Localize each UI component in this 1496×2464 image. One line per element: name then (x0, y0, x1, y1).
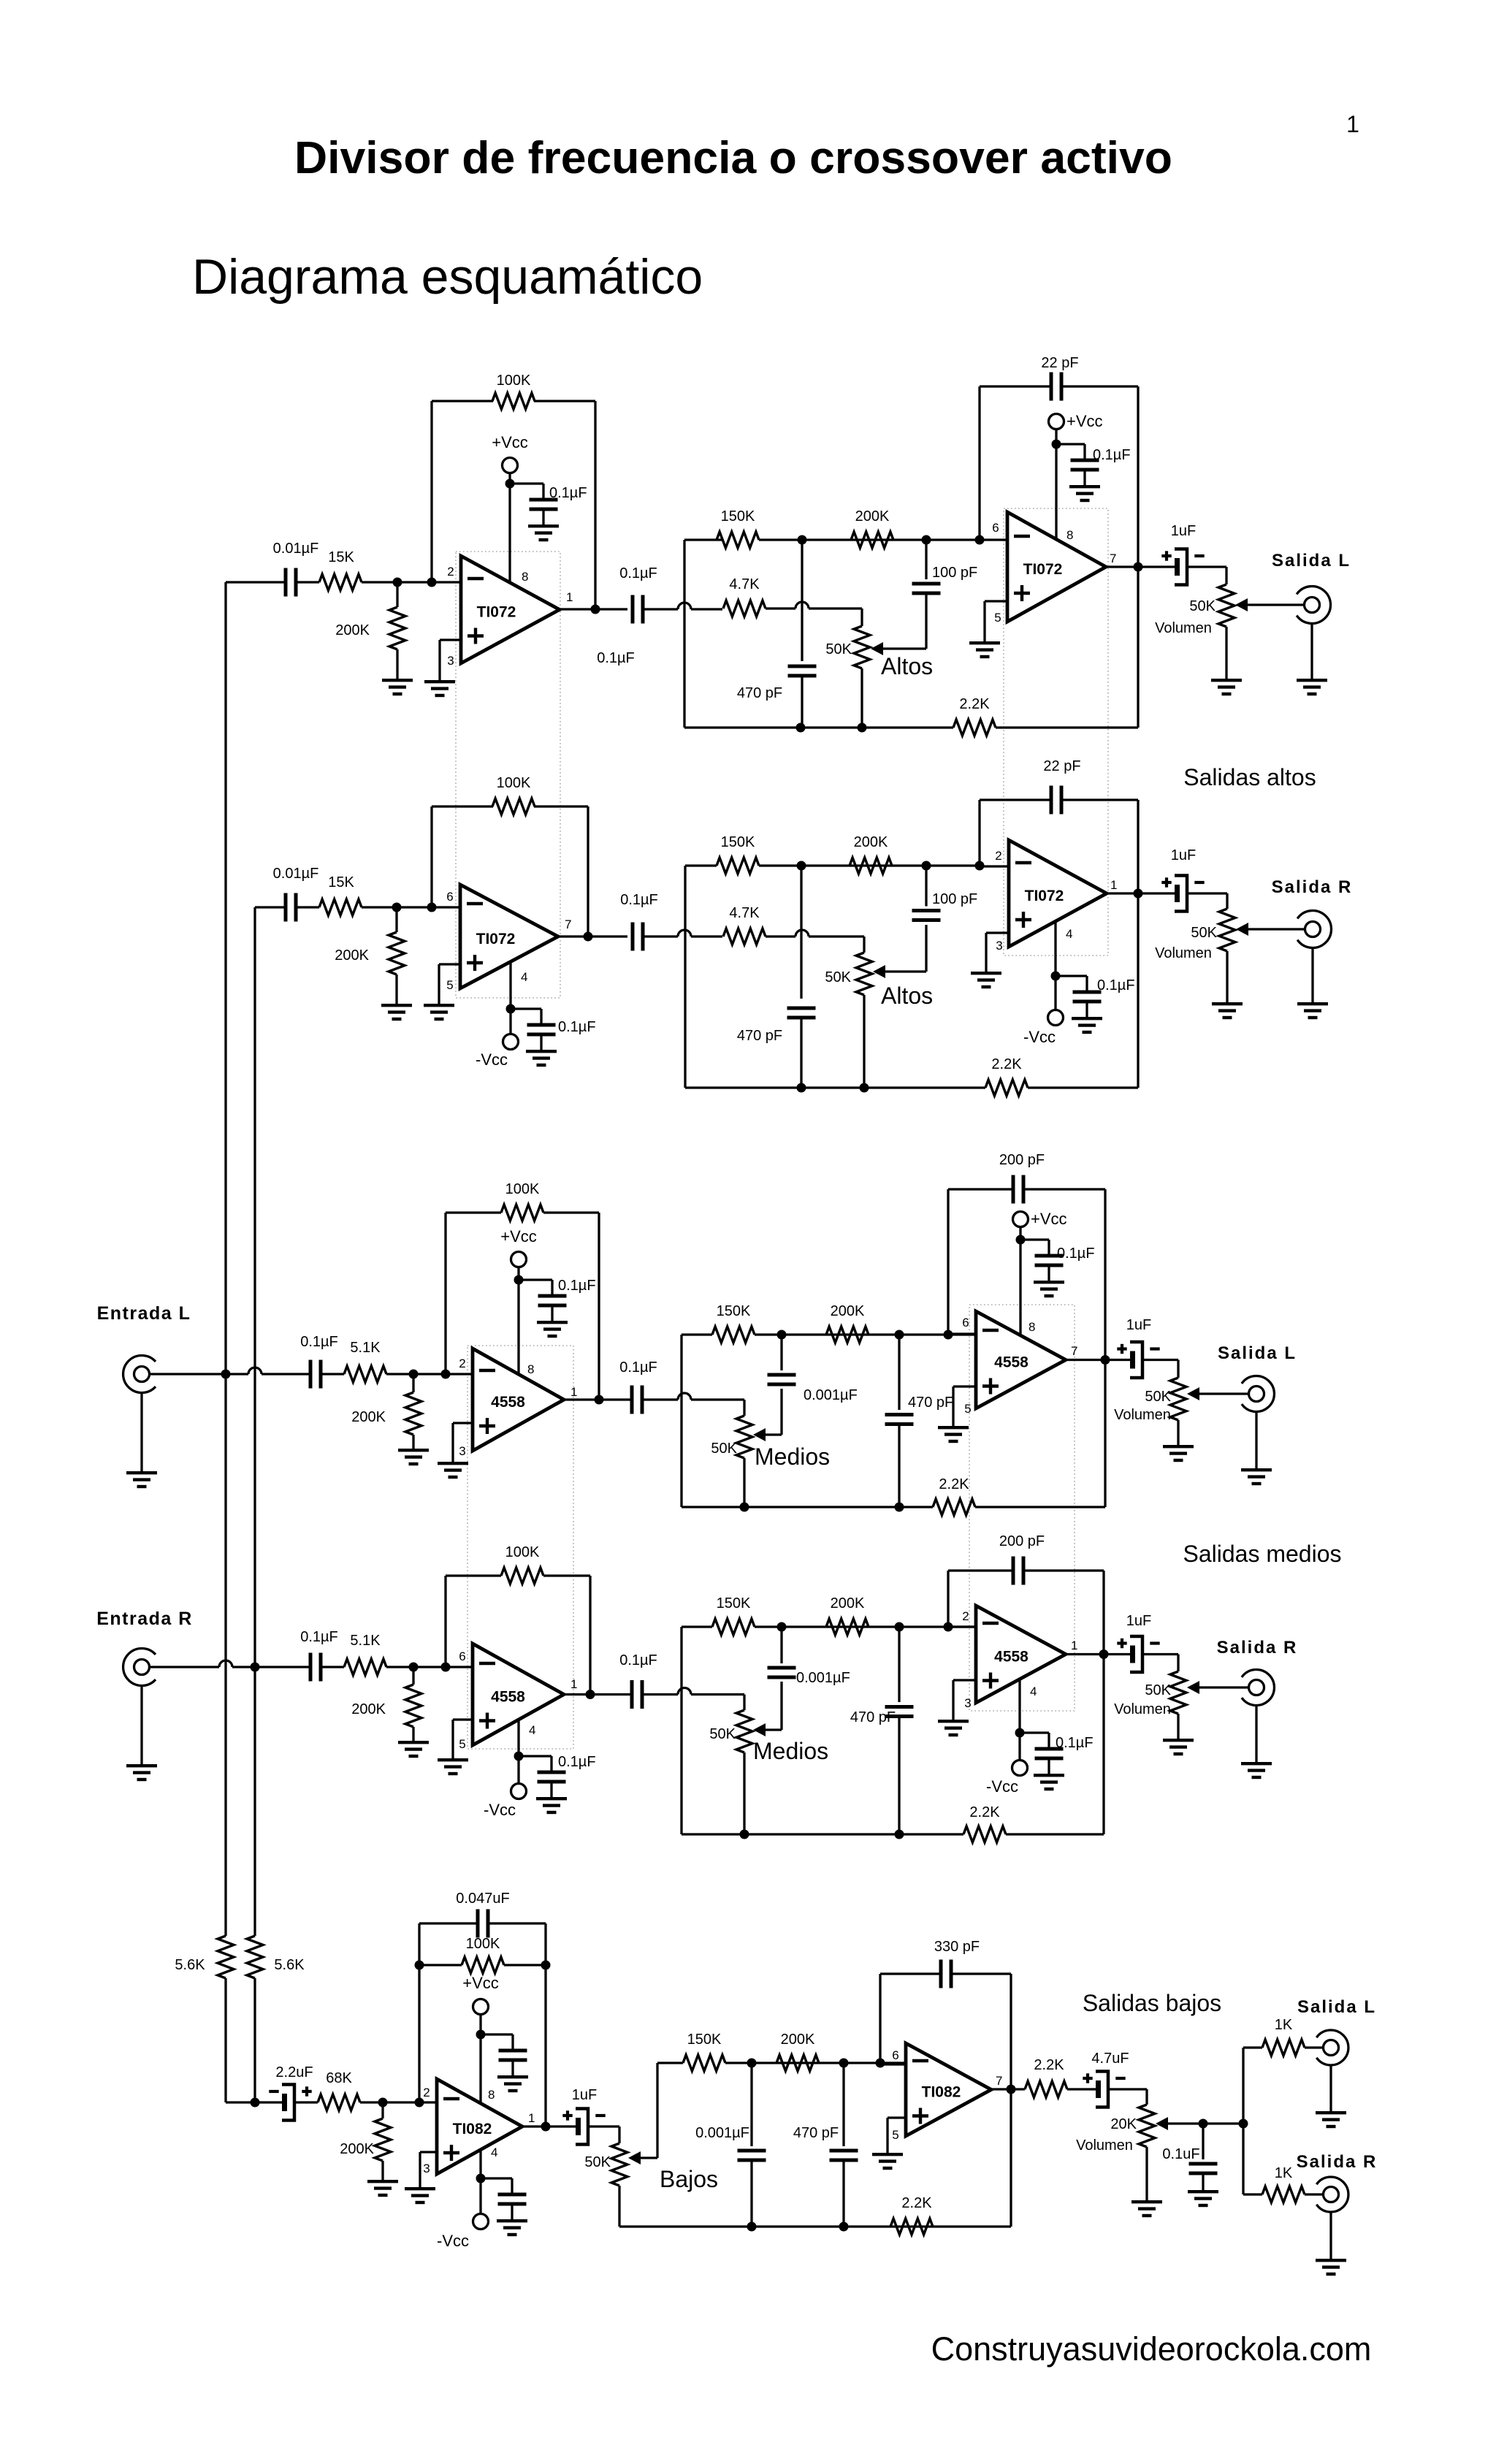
svg-text:4: 4 (1030, 1685, 1037, 1698)
svg-text:1: 1 (570, 1677, 577, 1691)
svg-text:7: 7 (1071, 1344, 1077, 1358)
svg-text:TI072: TI072 (1025, 888, 1064, 904)
svg-text:68K: 68K (326, 2070, 352, 2086)
svg-text:Volumen: Volumen (1114, 1407, 1171, 1423)
svg-text:TI072: TI072 (1023, 561, 1063, 578)
svg-text:200K: 200K (855, 508, 890, 525)
svg-text:4: 4 (491, 2145, 497, 2159)
svg-text:1: 1 (1071, 1639, 1077, 1652)
svg-text:150K: 150K (687, 2032, 722, 2048)
svg-text:TI072: TI072 (477, 604, 516, 621)
svg-text:8: 8 (488, 2088, 495, 2102)
svg-text:+Vcc: +Vcc (492, 433, 528, 451)
svg-text:Salida L: Salida L (1218, 1343, 1297, 1363)
svg-text:Salidas medios: Salidas medios (1183, 1541, 1342, 1567)
svg-text:4558: 4558 (491, 1394, 525, 1411)
svg-text:TI072: TI072 (476, 931, 516, 947)
svg-text:0.047uF: 0.047uF (456, 1891, 509, 1907)
svg-text:0.1µF: 0.1µF (300, 1334, 338, 1350)
svg-text:5.1K: 5.1K (350, 1633, 381, 1649)
svg-text:5: 5 (994, 611, 1001, 625)
svg-text:22 pF: 22 pF (1043, 758, 1080, 774)
svg-text:4.7uF: 4.7uF (1091, 2051, 1129, 2067)
svg-text:20K: 20K (1110, 2116, 1137, 2132)
svg-text:2: 2 (459, 1357, 465, 1370)
svg-text:Bajos: Bajos (660, 2166, 718, 2192)
svg-text:2: 2 (447, 565, 454, 579)
svg-text:Altos: Altos (881, 983, 933, 1009)
svg-text:200K: 200K (831, 1595, 865, 1611)
svg-text:0.1µF: 0.1µF (1056, 1735, 1094, 1751)
svg-text:-Vcc: -Vcc (476, 1050, 508, 1069)
svg-text:50K: 50K (709, 1726, 736, 1742)
svg-text:5.6K: 5.6K (175, 1957, 205, 1973)
svg-text:Entrada L: Entrada L (97, 1303, 191, 1324)
svg-text:8: 8 (1028, 1320, 1035, 1334)
svg-text:Diagrama esquamático: Diagrama esquamático (192, 249, 703, 305)
svg-text:Volumen: Volumen (1155, 945, 1212, 961)
svg-text:-Vcc: -Vcc (484, 1801, 516, 1819)
svg-text:0.01µF: 0.01µF (273, 866, 319, 882)
svg-text:15K: 15K (328, 549, 354, 565)
svg-text:200 pF: 200 pF (999, 1152, 1045, 1168)
svg-text:100K: 100K (466, 1936, 500, 1952)
svg-text:1: 1 (1346, 111, 1359, 137)
svg-text:100K: 100K (505, 1181, 540, 1197)
svg-text:2.2K: 2.2K (991, 1056, 1022, 1072)
svg-text:-Vcc: -Vcc (1023, 1028, 1056, 1046)
svg-text:6: 6 (962, 1316, 969, 1330)
svg-text:0.1µF: 0.1µF (619, 565, 657, 581)
svg-text:5.1K: 5.1K (350, 1340, 381, 1356)
svg-text:Volumen: Volumen (1114, 1701, 1171, 1717)
svg-text:4.7K: 4.7K (729, 576, 760, 592)
svg-text:330 pF: 330 pF (934, 1939, 980, 1955)
svg-text:50K: 50K (825, 969, 851, 985)
svg-text:8: 8 (1066, 528, 1073, 542)
svg-text:4: 4 (1066, 927, 1072, 941)
svg-text:0.1µF: 0.1µF (620, 892, 658, 908)
svg-text:TI082: TI082 (922, 2084, 961, 2101)
svg-text:100 pF: 100 pF (932, 565, 977, 581)
svg-text:2.2K: 2.2K (969, 1804, 1000, 1820)
svg-text:0.1µF: 0.1µF (619, 1359, 657, 1376)
svg-text:6: 6 (992, 521, 999, 535)
svg-text:0.001µF: 0.001µF (695, 2125, 749, 2141)
svg-text:-Vcc: -Vcc (986, 1777, 1018, 1796)
svg-text:1uF: 1uF (1126, 1317, 1151, 1333)
svg-text:1K: 1K (1275, 2017, 1293, 2033)
svg-text:2: 2 (423, 2086, 430, 2099)
svg-text:3: 3 (964, 1696, 971, 1710)
svg-text:6: 6 (892, 2048, 898, 2062)
svg-text:50K: 50K (1191, 925, 1217, 941)
svg-text:1uF: 1uF (1171, 847, 1196, 863)
svg-text:2.2K: 2.2K (959, 696, 990, 712)
svg-text:5: 5 (892, 2128, 898, 2142)
svg-text:50K: 50K (1145, 1682, 1171, 1698)
svg-text:50K: 50K (1145, 1389, 1171, 1405)
svg-text:200K: 200K (351, 1409, 386, 1425)
svg-text:200 pF: 200 pF (999, 1533, 1045, 1549)
svg-text:200K: 200K (781, 2032, 815, 2048)
svg-text:Salida L: Salida L (1297, 1997, 1376, 2017)
svg-text:4558: 4558 (491, 1689, 525, 1706)
svg-text:2.2K: 2.2K (939, 1476, 969, 1492)
svg-text:6: 6 (446, 890, 453, 904)
svg-text:5: 5 (459, 1737, 465, 1751)
svg-text:Salidas altos: Salidas altos (1183, 764, 1316, 790)
svg-text:Divisor de frecuencia o crosso: Divisor de frecuencia o crossover activo (294, 132, 1172, 183)
svg-text:0.1µF: 0.1µF (619, 1652, 657, 1668)
svg-text:Altos: Altos (881, 653, 933, 679)
svg-text:100K: 100K (497, 373, 531, 389)
svg-text:200K: 200K (831, 1303, 865, 1319)
svg-text:8: 8 (527, 1362, 534, 1376)
svg-text:150K: 150K (717, 1303, 751, 1319)
svg-text:5: 5 (446, 978, 453, 992)
svg-text:470 pF: 470 pF (737, 685, 782, 701)
svg-text:100K: 100K (497, 775, 531, 791)
svg-text:4558: 4558 (994, 1649, 1028, 1666)
svg-text:TI082: TI082 (453, 2121, 492, 2137)
svg-text:2.2K: 2.2K (1034, 2057, 1064, 2073)
svg-text:1uF: 1uF (572, 2087, 597, 2103)
svg-text:Salida R: Salida R (1217, 1638, 1298, 1658)
svg-text:Salida R: Salida R (1272, 877, 1353, 897)
svg-text:470 pF: 470 pF (737, 1028, 782, 1044)
svg-text:0.1µF: 0.1µF (558, 1754, 596, 1770)
svg-text:150K: 150K (721, 834, 755, 850)
svg-text:0.01µF: 0.01µF (273, 541, 319, 557)
svg-text:1: 1 (528, 2111, 535, 2125)
svg-text:Salida R: Salida R (1297, 2152, 1378, 2172)
svg-text:22 pF: 22 pF (1041, 355, 1078, 371)
svg-text:470 pF: 470 pF (793, 2125, 839, 2141)
svg-text:5: 5 (964, 1402, 971, 1416)
svg-text:0.1µF: 0.1µF (597, 650, 635, 666)
svg-text:2: 2 (995, 849, 1001, 863)
svg-text:+Vcc: +Vcc (462, 1974, 499, 1992)
svg-text:3: 3 (423, 2162, 430, 2175)
svg-text:470 pF: 470 pF (908, 1395, 953, 1411)
svg-text:50K: 50K (584, 2154, 611, 2170)
svg-text:Salidas bajos: Salidas bajos (1083, 1990, 1221, 2016)
svg-text:3: 3 (447, 654, 454, 668)
svg-text:1K: 1K (1275, 2165, 1293, 2181)
svg-text:Construyasuvideorockola.com: Construyasuvideorockola.com (931, 2330, 1372, 2368)
svg-text:0.001µF: 0.001µF (796, 1670, 850, 1686)
svg-text:200K: 200K (854, 834, 888, 850)
svg-text:200K: 200K (340, 2141, 374, 2157)
svg-text:150K: 150K (717, 1595, 751, 1611)
svg-text:1: 1 (570, 1385, 577, 1399)
svg-text:7: 7 (1110, 552, 1116, 565)
svg-text:Volumen: Volumen (1076, 2137, 1133, 2154)
svg-text:8: 8 (522, 570, 528, 584)
svg-text:0.1µF: 0.1µF (300, 1629, 338, 1645)
svg-text:Volumen: Volumen (1155, 620, 1212, 636)
svg-text:0.1µF: 0.1µF (1097, 977, 1135, 993)
svg-text:+Vcc: +Vcc (1066, 412, 1103, 430)
svg-text:4.7K: 4.7K (729, 905, 760, 921)
svg-text:50K: 50K (1189, 598, 1215, 614)
svg-text:-Vcc: -Vcc (437, 2232, 469, 2250)
svg-text:1uF: 1uF (1171, 523, 1196, 539)
svg-text:7: 7 (565, 918, 571, 931)
svg-text:0.1µF: 0.1µF (549, 485, 587, 501)
svg-text:0.1µF: 0.1µF (1093, 447, 1131, 463)
svg-text:Medios: Medios (753, 1738, 828, 1764)
svg-text:3: 3 (459, 1444, 465, 1458)
svg-text:0.1uF: 0.1uF (1162, 2146, 1199, 2162)
svg-text:100 pF: 100 pF (932, 891, 977, 907)
svg-text:2: 2 (962, 1609, 969, 1623)
svg-text:470 pF: 470 pF (850, 1709, 896, 1725)
svg-text:4: 4 (529, 1723, 535, 1737)
svg-text:3: 3 (996, 939, 1002, 953)
svg-text:0.1µF: 0.1µF (558, 1278, 596, 1294)
svg-text:5.6K: 5.6K (274, 1957, 305, 1973)
svg-text:Medios: Medios (755, 1443, 830, 1470)
svg-text:1uF: 1uF (1126, 1613, 1151, 1629)
svg-text:2.2K: 2.2K (901, 2195, 932, 2211)
svg-text:50K: 50K (711, 1441, 737, 1457)
svg-text:4558: 4558 (994, 1354, 1028, 1371)
svg-text:1: 1 (566, 590, 573, 604)
svg-text:Salida L: Salida L (1272, 551, 1351, 571)
svg-text:+Vcc: +Vcc (500, 1227, 537, 1246)
svg-text:200K: 200K (335, 947, 369, 964)
svg-text:7: 7 (996, 2074, 1002, 2088)
svg-text:15K: 15K (328, 874, 354, 890)
svg-text:0.001µF: 0.001µF (804, 1387, 858, 1403)
svg-text:50K: 50K (825, 641, 852, 657)
svg-text:200K: 200K (351, 1701, 386, 1717)
svg-text:Entrada R: Entrada R (96, 1609, 193, 1629)
svg-text:1: 1 (1110, 878, 1117, 892)
svg-text:150K: 150K (721, 508, 755, 525)
svg-text:4: 4 (521, 970, 527, 984)
svg-text:+Vcc: +Vcc (1031, 1210, 1067, 1228)
svg-text:6: 6 (459, 1649, 465, 1663)
svg-text:100K: 100K (505, 1544, 540, 1560)
svg-text:2.2uF: 2.2uF (275, 2064, 313, 2080)
svg-text:0.1µF: 0.1µF (1057, 1246, 1095, 1262)
svg-text:200K: 200K (335, 622, 370, 638)
svg-text:0.1µF: 0.1µF (558, 1019, 596, 1035)
